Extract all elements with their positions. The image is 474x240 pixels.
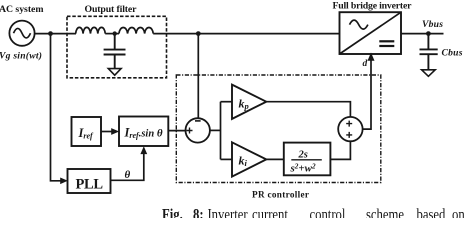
output filter dashed box [67, 16, 167, 78]
wire theta PLL to Iref.sin [111, 151, 144, 181]
svg-text:θ: θ [125, 169, 131, 181]
svg-text:Fig.8:Invertercurrentcontrolsc: Fig.8:Invertercurrentcontrolschemebasedo… [162, 206, 465, 218]
arrow theta up [140, 146, 147, 154]
svg-text:kp: kp [239, 97, 249, 112]
block PLL [68, 169, 111, 193]
svg-text:PLL: PLL [76, 177, 104, 193]
wire S2 to inverter d [363, 58, 371, 130]
wire node A down to PLL [51, 34, 63, 181]
wire feedback down to summer [197, 34, 199, 119]
PR controller dashed box [176, 75, 380, 183]
arrow d into inverter [368, 53, 375, 61]
svg-text:Full bridge inverter: Full bridge inverter [333, 1, 413, 12]
summer S2 [338, 117, 362, 141]
svg-text:d: d [363, 59, 368, 69]
node C junction dot [196, 31, 201, 36]
inductor L1 [76, 27, 106, 33]
ground filter [108, 69, 121, 76]
svg-text:Iref: Iref [78, 126, 95, 141]
svg-text:AC system: AC system [0, 4, 44, 15]
fraction bar [291, 159, 322, 161]
svg-text:2s: 2s [298, 149, 308, 160]
wire ki to resonant block [266, 158, 284, 160]
ground Cbus [422, 70, 436, 77]
svg-text:Vbus: Vbus [422, 19, 443, 30]
wire Iref.sin to summer [168, 130, 186, 132]
wire summer to branch [210, 129, 221, 131]
wire Iref to Iref.sin [101, 131, 114, 133]
wire source to filter [35, 33, 76, 35]
node A junction dot [48, 31, 53, 36]
minus sign S1 [195, 120, 201, 122]
plus sign S2 top [346, 121, 352, 127]
svg-text:PR controller: PR controller [252, 190, 309, 200]
wire between L1 and L2 [105, 33, 119, 35]
AC source V1 [9, 21, 34, 46]
wire inverter to Vbus [401, 33, 444, 35]
summer S1 [186, 118, 210, 142]
svg-text:Iref.sin θ: Iref.sin θ [124, 126, 163, 141]
block Iref [72, 117, 102, 146]
capacitor C1 [104, 34, 126, 69]
wire branch vertical [220, 102, 222, 160]
arrow into Iref.sin [111, 128, 119, 135]
capacitor Cbus [420, 34, 438, 70]
node Vbus junction dot [426, 31, 431, 36]
arrow into PLL [60, 178, 68, 185]
wire resonant to summer S2 [330, 141, 350, 159]
svg-text:Vg sin(wt): Vg sin(wt) [0, 51, 42, 62]
plus sign S1 [187, 128, 193, 134]
svg-text:s2+w2: s2+w2 [290, 162, 316, 174]
node B junction dot [113, 31, 117, 35]
wire filter to inverter [153, 33, 339, 35]
svg-text:Output filter: Output filter [85, 4, 138, 15]
amplifier ki [232, 142, 266, 176]
plus sign S2 bottom [346, 132, 352, 138]
inductor L2 [119, 28, 153, 34]
wire kp to summer S2 [266, 102, 350, 117]
amplifier kp [232, 85, 266, 119]
wire branch to ki [221, 158, 233, 160]
wire branch to kp [221, 101, 233, 103]
svg-text:ki: ki [239, 154, 248, 169]
full bridge inverter U1 [340, 12, 402, 54]
block resonant 2s/(s2+w2) [284, 143, 331, 176]
svg-text:Cbus: Cbus [442, 48, 463, 59]
block Iref.sin theta [119, 117, 168, 147]
